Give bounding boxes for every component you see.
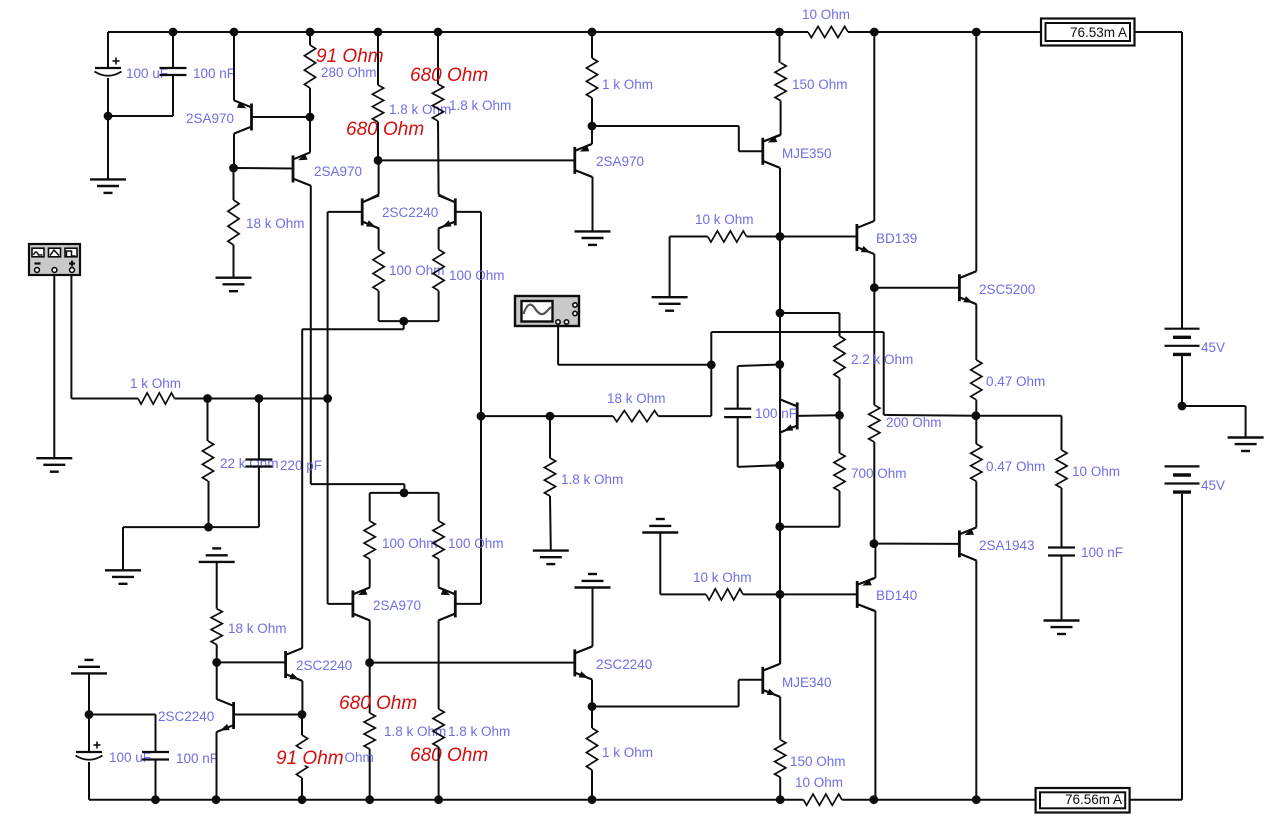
resistor R 0.47 bottom — [971, 444, 982, 481]
capacitor C 220pF — [245, 458, 272, 460]
wire Q5E top — [369, 493, 371, 521]
resistor R 1.8k upper-2 — [432, 84, 443, 121]
svg-text:200 Ohm: 200 Ohm — [886, 415, 942, 430]
svg-text:150 Ohm: 150 Ohm — [790, 754, 846, 769]
wire 0.47 bottom lead — [975, 416, 977, 444]
wire Q8 collector — [287, 648, 303, 655]
wire Q3 emitter run — [363, 222, 378, 229]
transistor Q5 2SA970 lower-left — [351, 590, 354, 617]
svg-text:2SA970: 2SA970 — [186, 111, 234, 126]
node Q1B-Q2E — [306, 113, 315, 122]
wire 1k top — [591, 32, 593, 58]
wire 1k to VASe — [591, 98, 593, 126]
wire FG common to ground — [53, 275, 55, 458]
transistor Q16 2SC5200 — [958, 274, 961, 301]
label red 91 Ohm bottom — [276, 749, 345, 766]
svg-text:18 k Ohm: 18 k Ohm — [228, 621, 287, 636]
wire bias Q collector — [780, 399, 796, 406]
wire 0.47 top lead — [975, 400, 977, 416]
svg-text:1.8 k Ohm: 1.8 k Ohm — [389, 102, 451, 117]
svg-text:10 k Ohm: 10 k Ohm — [695, 212, 754, 227]
resistor R 150 bottom — [775, 740, 786, 778]
ground decoupling top — [90, 178, 126, 180]
node rail 100nF top — [169, 28, 178, 37]
ground VAS bottom flipped — [575, 586, 611, 588]
capacitor C1 100uF — [95, 67, 121, 69]
resistor R-rail-bot 10 Ohm — [803, 794, 842, 805]
wire feedback rail — [481, 415, 613, 417]
ground VAS top — [575, 230, 611, 232]
wire Q6 emitter run — [439, 587, 455, 594]
node rail 1.8k l2 — [434, 795, 443, 804]
wire cap bank bottom-left — [88, 673, 90, 714]
transistor Q7 2SC2240 bottom-left — [232, 702, 235, 729]
node feedback divider — [546, 412, 555, 421]
node rail Q7 — [212, 795, 221, 804]
svg-text:220 pF: 220 pF — [280, 458, 322, 473]
wire battery column right — [1181, 32, 1183, 329]
wire Q4E bottom — [438, 291, 440, 321]
wire scope probe — [557, 326, 559, 365]
resistor R 10k top — [708, 231, 747, 242]
battery V2 45V — [1165, 465, 1200, 467]
wire 1.8k lower-2 bottom — [438, 747, 440, 800]
ground 18k top-left — [216, 277, 252, 279]
wire fb vertical — [710, 332, 712, 416]
wire 10k bottom arm — [659, 533, 661, 595]
node rail 2SC5200 — [972, 28, 981, 37]
node upper tail — [399, 317, 408, 326]
wire Q6 base — [455, 603, 481, 605]
wire 700 leads — [839, 415, 841, 453]
node battery mid — [1178, 402, 1187, 411]
resistor R 18k bottom-left — [211, 609, 222, 645]
node scope tap — [707, 360, 716, 369]
resistor R 22k — [202, 441, 213, 481]
node Q7C-Q8B — [212, 658, 221, 667]
svg-text:100 nF: 100 nF — [176, 751, 218, 766]
wire MJE350 collector — [764, 161, 780, 168]
resistor R 10k bottom — [706, 589, 743, 600]
svg-text:150 Ohm: 150 Ohm — [792, 77, 848, 92]
node VAS emitter top — [588, 122, 597, 131]
wire bias spine upper — [779, 237, 781, 365]
wire upper tail jog — [403, 321, 405, 329]
resistor R 1k input — [138, 393, 175, 404]
wire Q1 base — [252, 116, 311, 118]
node input-bases — [323, 394, 332, 403]
resistor R 1k bottom — [586, 728, 597, 770]
svg-text:100 Ohm: 100 Ohm — [382, 536, 438, 551]
node rail 1.8k l1 — [365, 795, 374, 804]
transistor Q12 bias vbe-multiplier — [796, 402, 799, 429]
transistor Q10 2SC2240 VAS bottom — [573, 649, 576, 676]
node Q7B-Q8E — [298, 710, 307, 719]
node bias Q base — [835, 411, 844, 420]
transistor Q6 2SA970 lower-right — [454, 590, 457, 617]
node VAS base tap — [374, 156, 383, 165]
resistor R 0.47 top — [971, 360, 982, 400]
node rail 1k top — [588, 28, 597, 37]
svg-text:2SA970: 2SA970 — [314, 164, 362, 179]
svg-text:100 nF: 100 nF — [1081, 545, 1123, 560]
node input-22k — [203, 394, 212, 403]
wire Q6E top — [438, 493, 440, 521]
node BD140 base node — [776, 590, 785, 599]
wire 2SA1943 base — [874, 543, 960, 545]
node Q1C-Q2B — [229, 164, 238, 173]
node rail 150 top — [775, 28, 784, 37]
svg-text:2SC2240: 2SC2240 — [596, 657, 652, 672]
svg-text:1.8 k Ohm: 1.8 k Ohm — [448, 724, 510, 739]
wire 280 top — [309, 32, 311, 45]
wire VAS bot emitter diag — [591, 680, 593, 707]
svg-text:MJE350: MJE350 — [782, 146, 832, 161]
resistor R 150 top — [775, 63, 786, 101]
wire VAS emitter diag — [591, 126, 593, 144]
wire 2SA1943 collector — [960, 554, 976, 561]
svg-text:0.47 Ohm: 0.47 Ohm — [986, 374, 1045, 389]
wire input to bases — [175, 398, 328, 400]
transistor Q1 2SA970 — [250, 104, 253, 131]
wire Q4 base — [455, 211, 481, 213]
svg-text:45V: 45V — [1201, 478, 1225, 493]
resistor R 18k feedback — [613, 411, 658, 422]
node VAS emitter bottom — [588, 702, 597, 711]
transistor Q11 MJE350 — [761, 138, 764, 165]
wire BD140 collector — [858, 604, 875, 611]
node 2SC5200 base tap — [870, 283, 879, 292]
transistor Q13 BD139 — [856, 224, 859, 251]
node rail 1.8k-1 — [374, 28, 383, 37]
wire bias Q base — [797, 414, 839, 417]
svg-text:2SA970: 2SA970 — [596, 154, 644, 169]
wire zobel bottom — [1061, 556, 1063, 621]
wire BD140 emitter — [858, 578, 875, 585]
wire zobel mid — [1061, 488, 1063, 548]
node rail 1k bottom — [588, 795, 597, 804]
wire 18k1 chain — [233, 168, 235, 200]
node rail 150 bottom — [776, 795, 785, 804]
svg-text:BD140: BD140 — [876, 588, 917, 603]
wire Q5 base — [328, 603, 353, 605]
capacitor C zobel 100nF — [1048, 546, 1075, 548]
node feedback bases — [477, 412, 486, 421]
wire Q5 collector — [354, 614, 370, 621]
resistor R 100 upper-right — [433, 250, 444, 291]
node rail BD139 — [870, 28, 879, 37]
wire 2.2k leads — [839, 332, 841, 336]
wire bias spine lower — [779, 365, 781, 665]
wire cap bank top-left — [107, 32, 109, 68]
wire BD139 base — [780, 236, 857, 238]
wire 1.8k-2 to Q4C — [437, 121, 440, 195]
svg-text:76.56m A: 76.56m A — [1065, 792, 1122, 807]
wire lower VAS base — [370, 662, 575, 664]
node lower VAS base tap — [365, 658, 374, 667]
wire flip ground 18k2 — [216, 562, 218, 609]
wire VAS bot collector — [576, 646, 593, 653]
wire 280-Q2 — [309, 88, 311, 117]
ammeter U-top 76.53mA — [1041, 19, 1135, 46]
svg-text:1 k Ohm: 1 k Ohm — [130, 376, 181, 391]
wire MJE340 emitter — [764, 690, 780, 697]
wire Q8 base — [217, 661, 286, 663]
svg-text:2SC5200: 2SC5200 — [979, 282, 1035, 297]
transistor Q2 2SA970 — [292, 156, 295, 183]
svg-text:Ohm: Ohm — [345, 750, 374, 765]
resistor R 1.8k lower-1 — [364, 713, 375, 749]
capacitor C2 100nF — [160, 67, 187, 69]
resistor R 18k top-left — [228, 200, 239, 245]
node rail 100nF bottom — [151, 795, 160, 804]
resistor R 1k top — [586, 58, 597, 98]
transistor Q14 BD140 — [856, 581, 859, 608]
wire MJE350 base jog — [592, 125, 739, 127]
wire bias Q emitter — [780, 426, 796, 433]
wire 200 bottom — [873, 442, 875, 544]
wire fb divider — [549, 416, 551, 458]
node lower tail — [400, 489, 409, 498]
wire Q2 collector — [294, 179, 311, 186]
wire Q8 emitter — [287, 675, 303, 682]
capacitor C bias 100nF — [724, 408, 751, 410]
resistor R 1.8k upper-1 — [372, 85, 383, 122]
resistor R 280 Ohm bottom — [296, 735, 307, 778]
wire 1.8k-2 top — [437, 32, 439, 84]
transistor Q3 2SC2240 upper-left — [361, 198, 364, 225]
ground 10k bottom flipped — [642, 531, 678, 533]
wire 2SC5200 collector — [960, 271, 976, 278]
transistor Q4 2SC2240 upper-right — [454, 198, 457, 225]
node 700 tap — [775, 522, 784, 531]
wire VAS base — [378, 159, 575, 161]
ground zobel — [1044, 619, 1080, 621]
transistor Q9 2SA970 VAS top — [573, 147, 576, 174]
wire 2SC5200 base — [874, 287, 959, 289]
wire bias cap top lead — [738, 365, 780, 367]
node bias cap bottom — [775, 461, 784, 470]
wire MJE350 emitter — [780, 101, 782, 136]
svg-text:0.47 Ohm: 0.47 Ohm — [986, 459, 1045, 474]
wire 1.8k-1 top — [377, 32, 379, 85]
wire right bases vertical — [480, 212, 482, 604]
node rail BD140 — [869, 795, 878, 804]
wire BD140 base — [780, 593, 857, 595]
wire 220p branch — [258, 399, 260, 460]
resistor R 100 lower-left — [364, 521, 375, 559]
svg-text:1.8 k Ohm: 1.8 k Ohm — [384, 724, 446, 739]
wire 2SC5200 emitter — [960, 298, 976, 305]
wire BD139 emitter — [858, 248, 874, 255]
resistor R 2.2k — [834, 336, 845, 378]
resistor R 10 Ohm zobel — [1056, 450, 1067, 488]
capacitor C3 100uF bottom — [76, 751, 102, 753]
svg-text:2SC2240: 2SC2240 — [296, 658, 352, 673]
svg-text:22 k Ohm: 22 k Ohm — [220, 456, 279, 471]
transistor Q8 2SC2240 bottom-right — [284, 651, 287, 678]
svg-text:2SC2240: 2SC2240 — [382, 205, 438, 220]
svg-text:680 Ohm: 680 Ohm — [346, 119, 424, 140]
node rail 91 — [298, 795, 307, 804]
node rail 2SA1943 — [972, 795, 981, 804]
svg-text:18 k Ohm: 18 k Ohm — [246, 216, 305, 231]
svg-text:1 k Ohm: 1 k Ohm — [602, 745, 653, 760]
wire 1k to VASe bot — [591, 707, 593, 729]
wire RC common — [123, 526, 259, 528]
wire 10k top arm — [669, 237, 671, 298]
wire Q3E bottom — [378, 291, 380, 321]
resistor R 200 Ohm — [869, 405, 880, 442]
resistor R 100 upper-left — [373, 250, 384, 291]
wire bias jog — [780, 312, 840, 314]
wire zobel top — [976, 415, 1062, 417]
resistor R 1.8k lower-2 — [433, 709, 444, 747]
svg-text:91 Ohm: 91 Ohm — [276, 748, 344, 769]
svg-text:76.53m A: 76.53m A — [1070, 25, 1127, 40]
wire 2SA1943 emitter — [975, 481, 977, 527]
node rail 1.8k-2 — [434, 28, 443, 37]
wire 1k bottom — [591, 770, 593, 800]
svg-text:680 Ohm: 680 Ohm — [410, 65, 488, 86]
wire fb divider gnd — [549, 496, 552, 551]
node cap bank top — [104, 112, 113, 121]
ground 10k top — [652, 296, 688, 298]
ammeter U-bot 76.56mA — [1036, 788, 1130, 813]
svg-text:BD139: BD139 — [876, 231, 917, 246]
node 2SA1943 base tap — [870, 539, 879, 548]
node output — [972, 411, 981, 420]
svg-text:45V: 45V — [1201, 340, 1225, 355]
svg-text:100 Ohm: 100 Ohm — [449, 268, 505, 283]
svg-text:100 nF: 100 nF — [193, 66, 235, 81]
wire scope-feedback link — [883, 332, 885, 415]
svg-text:700 Ohm: 700 Ohm — [851, 466, 907, 481]
resistor R 1.8k fb — [544, 458, 555, 496]
svg-text:1.8 k Ohm: 1.8 k Ohm — [449, 98, 511, 113]
svg-text:18 k Ohm: 18 k Ohm — [607, 391, 666, 406]
node BD139 base tap — [776, 232, 785, 241]
ground 18k bottom flipped — [199, 561, 235, 563]
ground FG common — [36, 457, 72, 459]
wire 10k bottom to node — [743, 593, 780, 595]
svg-text:10 Ohm: 10 Ohm — [1072, 464, 1120, 479]
svg-text:10 k Ohm: 10 k Ohm — [693, 570, 752, 585]
node rail Q1 — [230, 28, 239, 37]
transistor Q15 MJE340 — [761, 667, 764, 694]
svg-text:91 Ohm: 91 Ohm — [316, 46, 384, 67]
wire Q4 emitter run — [439, 222, 455, 229]
wire Q2 base — [234, 167, 293, 170]
wire 22k branch — [207, 399, 209, 442]
svg-text:10 Ohm: 10 Ohm — [802, 7, 850, 22]
wire top +rail — [108, 31, 808, 33]
wire 150 bottom lead — [779, 777, 781, 800]
battery V1 45V — [1165, 328, 1200, 330]
wire bottom -rail — [89, 799, 803, 801]
svg-text:100 Ohm: 100 Ohm — [448, 536, 504, 551]
node cap bank bottom — [85, 710, 94, 719]
wire Q1 collector — [234, 127, 251, 134]
wire 1.8k lower-1 bottom — [369, 749, 371, 800]
ground decoupling bottom flipped — [71, 672, 107, 674]
wire 18k2 to node — [216, 645, 218, 663]
svg-text:100 nF: 100 nF — [755, 406, 797, 421]
wire 200 chain — [873, 288, 875, 405]
wire 150 top — [779, 32, 781, 63]
svg-text:680 Ohm: 680 Ohm — [339, 693, 417, 714]
svg-text:1.8 k Ohm: 1.8 k Ohm — [561, 472, 623, 487]
node RC common — [204, 523, 213, 532]
svg-text:MJE340: MJE340 — [782, 675, 832, 690]
wire MJE340 collector — [764, 664, 780, 671]
wire mid cross — [711, 331, 883, 333]
wire Q1 emitter — [233, 32, 235, 101]
wire Q5 emitter run — [354, 587, 370, 594]
svg-text:2.2 k Ohm: 2.2 k Ohm — [851, 352, 913, 367]
capacitor C4 100nF bottom — [142, 751, 169, 753]
transistor Q17 2SA1943 — [958, 530, 961, 557]
svg-text:2SA970: 2SA970 — [373, 598, 421, 613]
wire 91 resistor bottom — [301, 778, 303, 800]
resistor R 100 lower-right — [433, 521, 444, 559]
function generator XFG1 — [29, 244, 80, 275]
wire left bases vertical — [327, 212, 329, 604]
resistor R 700 Ohm — [834, 453, 845, 491]
svg-text:10 Ohm: 10 Ohm — [795, 775, 843, 790]
wire VAS collector to ground — [576, 170, 593, 177]
node bias jog — [776, 309, 785, 318]
svg-text:280 Ohm: 280 Ohm — [321, 65, 377, 80]
node bias cap top — [775, 360, 784, 369]
svg-text:2SC2240: 2SC2240 — [158, 709, 214, 724]
wire 91 resistor top — [301, 715, 303, 736]
ground fb divider — [533, 549, 569, 551]
wire 1.8k-1 to Q3C — [377, 122, 379, 160]
node input-220p — [255, 394, 264, 403]
ground battery mid — [1228, 436, 1264, 438]
wire BD139 collector — [858, 221, 874, 228]
svg-text:680 Ohm: 680 Ohm — [410, 745, 488, 766]
wire Q7 emitter — [217, 726, 233, 733]
wire Q6 collector — [439, 614, 455, 621]
svg-text:2SA1943: 2SA1943 — [979, 538, 1035, 553]
wire MJE340 base jog — [592, 706, 739, 708]
wire bias cap bottom lead — [737, 417, 739, 467]
wire FG plus — [70, 275, 72, 399]
wire Q3 base — [328, 211, 363, 213]
resistor R-rail-top 10 Ohm — [808, 26, 848, 37]
node rail 280 — [306, 28, 315, 37]
ground RC common — [105, 569, 141, 571]
wire Q7 collector — [216, 662, 218, 699]
resistor R 280 Ohm — [304, 45, 315, 88]
wire Q7 base wire — [234, 714, 302, 716]
wire 10k top to node — [747, 236, 781, 238]
svg-text:1 k Ohm: 1 k Ohm — [602, 77, 653, 92]
oscilloscope XSC1 — [515, 296, 579, 326]
